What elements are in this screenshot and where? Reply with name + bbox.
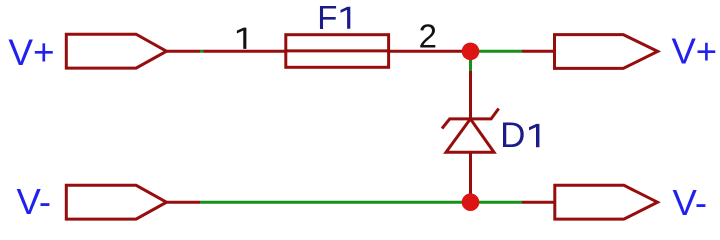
svg-text:D: D [500,116,525,155]
connector J4 (V- output port) [555,185,658,219]
connector J2 (V+ output port) [555,35,658,69]
junction node bottom [462,193,480,211]
pin of connector J3 [167,201,201,204]
svg-text:V+: V+ [671,31,717,72]
svg-text:V+: V+ [8,32,54,73]
wire vertical segment below top junction [469,51,472,71]
connector J1 (V+ input port) [66,34,166,68]
wire V+ left segment [200,50,204,53]
pin 1 of fuse F1 [204,50,288,53]
svg-text:V-: V- [673,182,708,223]
svg-text:2: 2 [419,18,437,55]
pin of connector J1 [167,50,201,53]
wire V- left segment [200,201,471,204]
diode D1 triangle [446,119,494,152]
wire V+ right segment [471,50,523,53]
fuse F1 body [286,35,389,68]
pin 2 of fuse F1 [389,50,465,53]
junction node top [462,43,480,61]
pin 1 (cathode) of diode D1 [469,71,472,119]
wire V- right segment [471,201,523,204]
zener cathode bar of D1 [442,109,499,129]
pin of connector J2 [522,50,556,53]
pin 2 (anode) of diode D1 [469,152,472,202]
fuse F1 middle line [284,49,390,52]
svg-text:F: F [317,0,337,36]
pin number 1 [237,28,247,49]
pin of connector J4 [522,201,556,204]
connector J3 (V- input port) [66,185,166,219]
svg-text:V-: V- [17,181,52,222]
